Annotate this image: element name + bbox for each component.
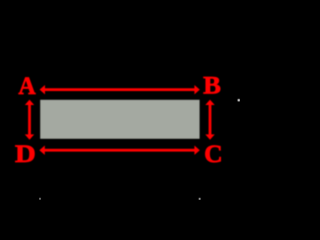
svg-text:B: B [203,70,221,99]
top width arrow A-B [40,85,200,94]
bottom width arrow D-C [39,146,199,155]
left height arrow A-D [25,100,34,140]
gray rectangle ABCD [40,100,199,139]
right height arrow B-C [205,100,214,140]
artifact dot bottom left [39,198,41,200]
artifact dot right edge [238,99,240,101]
artifact dot bottom right [199,198,201,200]
svg-text:C: C [204,139,223,168]
svg-text:D: D [15,139,36,168]
svg-text:A: A [18,71,36,100]
